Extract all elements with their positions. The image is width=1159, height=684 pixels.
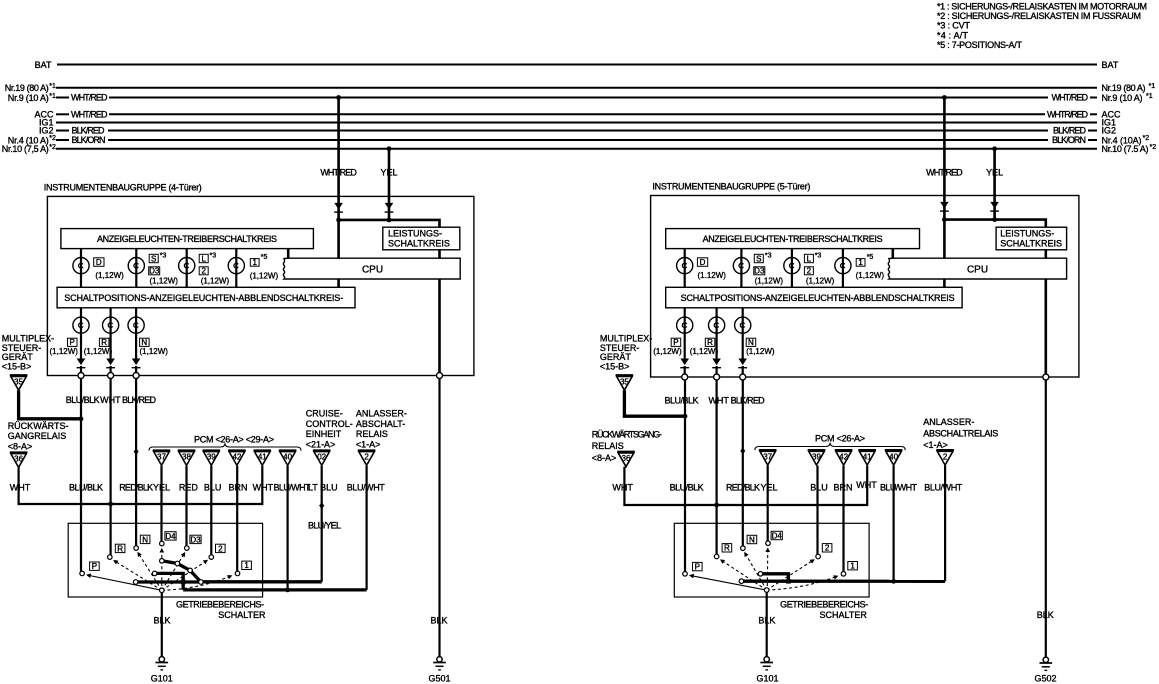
wire driver circuit to CPU xyxy=(287,249,290,259)
svg-text:R: R xyxy=(707,338,713,347)
contact D3 xyxy=(185,546,190,551)
wire LEISTUNGS to CPU xyxy=(438,250,441,258)
svg-text:EINHEIT: EINHEIT xyxy=(306,429,342,439)
wire color labels row xyxy=(10,482,386,492)
svg-text:*3: *3 xyxy=(765,253,772,260)
inner contact E' xyxy=(758,572,763,577)
lamp L/2 xyxy=(784,258,800,274)
wire LEISTUNGS to CPU xyxy=(1045,250,1048,258)
instrument cluster box (5-door) xyxy=(651,196,1079,378)
svg-text:*1: *1 xyxy=(1149,83,1156,90)
lamp 1 xyxy=(835,258,851,274)
svg-text:N: N xyxy=(749,535,755,544)
svg-text:<21-A>: <21-A> xyxy=(306,440,336,450)
svg-text:RED/BLK: RED/BLK xyxy=(726,482,760,492)
svg-text:2: 2 xyxy=(807,267,812,276)
dashed line wiper to 2 xyxy=(162,560,208,590)
wire IG2 BLK/RED bus xyxy=(56,130,69,132)
svg-text:42: 42 xyxy=(839,452,848,461)
connector 41 PCM xyxy=(858,450,876,465)
label D3 box xyxy=(149,267,160,275)
label 2 box xyxy=(199,267,208,275)
svg-text:*3 : CVT: *3 : CVT xyxy=(937,21,971,31)
contact D4 xyxy=(160,541,165,546)
splice marker LT BLU / BLU-YEL xyxy=(319,502,324,509)
wiper contact xyxy=(160,588,165,593)
node junction on Nr.10 bus xyxy=(387,146,392,151)
svg-text:ANLASSER-: ANLASSER- xyxy=(356,409,407,419)
svg-text:BLU/WHT: BLU/WHT xyxy=(924,482,963,492)
wire CPU down right side xyxy=(1045,279,1048,377)
svg-text:BLU/YEL: BLU/YEL xyxy=(308,521,341,531)
inner contact F' xyxy=(739,579,744,584)
arrow lamp P out xyxy=(680,359,689,368)
node dot YEL xyxy=(387,218,392,223)
svg-text:38: 38 xyxy=(182,453,191,462)
label N box xyxy=(746,338,756,346)
svg-text:BLK/ORN: BLK/ORN xyxy=(72,135,106,145)
svg-text:WHT/RED: WHT/RED xyxy=(71,109,108,119)
svg-text:CRUISE-: CRUISE- xyxy=(306,409,343,419)
dashed line wiper to N xyxy=(745,553,767,591)
svg-text:BAT: BAT xyxy=(35,60,52,70)
thick link E' xyxy=(761,574,789,581)
svg-text:39: 39 xyxy=(812,452,821,461)
dashed line wiper to D4 xyxy=(766,548,769,586)
wire BLK wiper to ground xyxy=(161,593,163,657)
lamp N xyxy=(128,317,144,333)
ground G501 xyxy=(433,657,446,670)
wire Nr.10 bus xyxy=(56,148,1097,150)
label D4 box switch xyxy=(771,531,782,539)
svg-text:*2: *2 xyxy=(1143,135,1150,142)
inner contact B xyxy=(175,561,180,566)
svg-text:(1,12W): (1,12W) xyxy=(806,277,835,286)
svg-text:WHTR/RED: WHTR/RED xyxy=(1047,109,1089,119)
lamp R xyxy=(103,317,119,333)
box LEISTUNGS-SCHALTKREIS xyxy=(996,227,1067,250)
label R box xyxy=(99,338,109,346)
lamp 1 wire xyxy=(842,249,844,288)
label RÜCKWÄRTSGANG-RELAIS <8-A> xyxy=(592,430,662,463)
pin P xyxy=(682,374,688,380)
pin R xyxy=(714,374,720,380)
wire BLK power circuit to ground xyxy=(1045,380,1047,658)
box GETRIEBEBEREICHS-SCHALTER xyxy=(674,523,869,597)
svg-text:D4: D4 xyxy=(772,531,783,540)
contact 2 xyxy=(209,555,214,560)
contact 2 xyxy=(816,554,821,559)
lamp R xyxy=(709,317,725,333)
dashed line wiper to 1 xyxy=(162,576,232,591)
svg-text:*5 : 7-POSITIONS-A/T: *5 : 7-POSITIONS-A/T xyxy=(937,40,1023,50)
dashed line wiper to 2 xyxy=(767,560,814,590)
lamp S/D3 xyxy=(128,258,144,274)
junction square xyxy=(181,580,186,585)
svg-text:ANLASSER-: ANLASSER- xyxy=(923,417,974,427)
label 1 box switch xyxy=(848,562,858,570)
svg-text:P: P xyxy=(695,563,700,572)
bus labels left xyxy=(2,60,54,154)
label D box xyxy=(697,258,707,267)
svg-text:<1-A>: <1-A> xyxy=(356,440,381,450)
svg-text:*2: *2 xyxy=(49,144,56,151)
connector 37 PCM xyxy=(153,450,171,465)
wire BRN PCM42 to 1 xyxy=(236,466,238,572)
svg-text:35: 35 xyxy=(14,377,23,386)
svg-text:IG2: IG2 xyxy=(1102,126,1117,136)
label N box xyxy=(140,338,150,346)
svg-text:*3: *3 xyxy=(815,253,822,260)
wiper contact xyxy=(764,588,769,593)
svg-text:R: R xyxy=(724,544,730,553)
bus labels right xyxy=(1102,60,1149,154)
svg-text:YEL: YEL xyxy=(380,168,397,178)
svg-text:BLU/BLK: BLU/BLK xyxy=(66,395,100,405)
svg-text:PCM <26-A> <29-A>: PCM <26-A> <29-A> xyxy=(194,434,274,444)
wire BLU/WHT relay2 down xyxy=(366,466,368,590)
dashed line wiper to R xyxy=(114,561,162,591)
node junction BLU/WHT on line2 xyxy=(285,588,290,593)
connector 39 PCM xyxy=(808,450,826,465)
label D box xyxy=(94,258,104,267)
svg-text:ABSCHALT-: ABSCHALT- xyxy=(356,419,405,429)
contact 1 xyxy=(235,571,240,576)
lamp S/D3 wire xyxy=(135,249,137,288)
arrow into cluster YEL xyxy=(385,203,394,212)
connector 35 multiplex xyxy=(616,375,634,390)
label 1 box switch xyxy=(242,561,252,569)
svg-text:*1: *1 xyxy=(49,93,56,100)
svg-text:CPU: CPU xyxy=(362,264,383,275)
wire WHT pin down xyxy=(109,379,111,556)
contact R xyxy=(108,555,113,560)
wire R arrow to pin xyxy=(715,366,717,377)
svg-text:CONTROL-: CONTROL- xyxy=(306,419,353,429)
svg-text:BLK/RED: BLK/RED xyxy=(731,396,766,406)
svg-text:BRN: BRN xyxy=(833,482,852,492)
svg-text:36: 36 xyxy=(14,455,23,464)
svg-text:WHT/RED: WHT/RED xyxy=(320,168,357,178)
thick line1 F to exit xyxy=(136,580,201,583)
arrow into cluster WHT/RED xyxy=(940,202,949,211)
lamp D xyxy=(73,258,89,274)
svg-text:WHT: WHT xyxy=(708,396,729,406)
svg-text:P: P xyxy=(92,562,97,571)
svg-text:YEL: YEL xyxy=(986,168,1003,178)
svg-text:Nr.9 (10 A): Nr.9 (10 A) xyxy=(8,93,49,103)
svg-text:2: 2 xyxy=(201,267,206,276)
svg-text:SCHALTKREIS: SCHALTKREIS xyxy=(1000,239,1062,249)
svg-text:BLK/RED: BLK/RED xyxy=(1053,126,1087,136)
svg-text:*1: *1 xyxy=(1146,93,1153,100)
splice marker BLK/RED to RED/BLK xyxy=(740,448,745,455)
svg-text:WHT: WHT xyxy=(10,482,31,492)
svg-text:BLU/BLK: BLU/BLK xyxy=(69,482,103,492)
inner contact C xyxy=(188,568,193,573)
label N box switch xyxy=(747,535,757,543)
LEGEND xyxy=(937,1,1147,50)
svg-text:RÜCKWÄRTS-: RÜCKWÄRTS- xyxy=(8,421,69,431)
svg-text:*3: *3 xyxy=(160,253,167,260)
node dot WHT/RED xyxy=(942,217,947,222)
label MULTIPLEX-STEUER-GERÄT <15-B> xyxy=(600,334,652,372)
wire BLU/WHT PCM40 down xyxy=(287,466,289,590)
pin power xyxy=(1043,374,1049,380)
svg-text:(1,12W): (1,12W) xyxy=(250,272,279,281)
label D4 box switch xyxy=(165,532,176,540)
svg-text:BAT: BAT xyxy=(1102,60,1119,70)
svg-text:BLU/WHT: BLU/WHT xyxy=(347,482,386,492)
svg-text:41: 41 xyxy=(258,453,267,462)
arrow into cluster WHT/RED xyxy=(334,203,343,212)
brace PCM xyxy=(755,443,905,450)
label R box switch xyxy=(115,544,125,552)
wire YEL PCM37 to D4 xyxy=(767,466,769,541)
connector 39 PCM xyxy=(203,450,221,465)
wire RED PCM38 to D3 xyxy=(185,466,187,546)
svg-text:42: 42 xyxy=(232,453,241,462)
svg-text:YEL: YEL xyxy=(760,482,777,492)
wire ACC WHT/RED bus xyxy=(56,113,69,115)
svg-text:*2: *2 xyxy=(49,135,56,142)
svg-text:G101: G101 xyxy=(151,673,173,683)
connector 2 starter cut relay xyxy=(936,450,954,465)
label 2 box switch xyxy=(822,544,832,552)
svg-text:D3: D3 xyxy=(754,267,765,276)
box SCHALTPOSITIONS dimming circuit xyxy=(57,287,355,308)
label MULTIPLEX-STEUER-GERÄT <15-B> xyxy=(2,334,54,372)
ground G101 right xyxy=(760,657,773,670)
svg-text:BLU/WHT: BLU/WHT xyxy=(880,482,918,492)
label R box xyxy=(705,338,715,346)
wire WHT pin down xyxy=(715,380,717,554)
svg-text:G101: G101 xyxy=(756,673,778,683)
arrow lamp P out xyxy=(77,359,86,368)
ground G502 xyxy=(1040,657,1053,670)
svg-text:SCHALTKREIS: SCHALTKREIS xyxy=(388,239,450,249)
label P box switch xyxy=(90,562,100,570)
svg-text:(1,12W): (1,12W) xyxy=(746,347,775,356)
lamp P xyxy=(73,317,89,333)
dashed line wiper to D4 xyxy=(161,549,163,586)
label CRUISE-CONTROL-EINHEIT <21-A> xyxy=(306,409,353,450)
box LEISTUNGS-SCHALTKREIS xyxy=(383,227,460,250)
svg-text:N: N xyxy=(142,535,148,544)
wire BLK wiper to ground xyxy=(766,592,768,657)
wire P arrow to pin xyxy=(80,366,82,376)
svg-text:(1.12W): (1.12W) xyxy=(698,271,727,280)
svg-text:Nr.10 (7.5 A): Nr.10 (7.5 A) xyxy=(1102,144,1149,154)
svg-text:02: 02 xyxy=(317,453,326,462)
svg-text:BLK: BLK xyxy=(430,615,447,625)
svg-text:BLU: BLU xyxy=(204,482,222,492)
wire BLK/RED pin down xyxy=(742,380,744,546)
connector 02 cruise control xyxy=(313,450,331,465)
node junction WHT xyxy=(714,503,719,508)
svg-text:36: 36 xyxy=(622,454,631,463)
svg-text:BLK/RED: BLK/RED xyxy=(122,395,157,405)
contact N xyxy=(741,546,746,551)
svg-text:(1,12W): (1,12W) xyxy=(690,347,719,356)
bus inline labels left xyxy=(71,93,108,146)
label 2 box xyxy=(804,267,813,275)
svg-text:37: 37 xyxy=(157,453,166,462)
svg-text:1: 1 xyxy=(244,561,249,570)
svg-text:WHT: WHT xyxy=(100,395,121,405)
wire Nr.19 bus xyxy=(56,87,1097,89)
svg-text:LEISTUNGS-: LEISTUNGS- xyxy=(388,229,442,239)
svg-text:2: 2 xyxy=(943,452,948,461)
lamp L/2 wire xyxy=(186,249,188,288)
wire YEL PCM37 to D4 xyxy=(160,466,162,542)
arrow into cluster YEL xyxy=(990,202,999,211)
svg-text:Nr.19 (80 A): Nr.19 (80 A) xyxy=(5,83,49,93)
svg-text:SCHALTER: SCHALTER xyxy=(820,610,868,620)
connector 41 PCM xyxy=(253,450,271,465)
wire CPU to dimming circuit xyxy=(337,279,340,287)
label 2 box switch xyxy=(216,544,226,552)
lamp S/D3 wire xyxy=(740,249,742,288)
pin R xyxy=(108,373,114,379)
wire WHT from relay 36 xyxy=(624,466,867,505)
splice marker BLK/RED to RED/BLK xyxy=(134,448,139,455)
dashed line wiper to R xyxy=(721,560,767,590)
svg-text:*5: *5 xyxy=(261,254,268,261)
wire driver circuit to CPU xyxy=(891,249,894,259)
wire YEL vertical drop right xyxy=(993,149,996,220)
connector 40 PCM xyxy=(279,450,297,465)
svg-text:Nr.19 (80 A): Nr.19 (80 A) xyxy=(1102,83,1146,93)
svg-text:WHT: WHT xyxy=(253,482,274,492)
svg-text:WHT/RED: WHT/RED xyxy=(926,168,963,178)
svg-text:<15-B>: <15-B> xyxy=(600,361,630,371)
wire BAT bus xyxy=(57,64,1097,66)
contact N xyxy=(134,546,139,551)
svg-text:CPU: CPU xyxy=(967,264,988,275)
ground G101 xyxy=(156,657,169,670)
thick line1 exit to BLU/YEL xyxy=(201,580,322,583)
thick link E to vertical xyxy=(155,573,184,590)
contact P xyxy=(683,572,688,577)
svg-text:(1,12W): (1,12W) xyxy=(856,271,885,280)
svg-text:<8-A>: <8-A> xyxy=(592,453,617,463)
connector 38 PCM xyxy=(178,450,196,465)
svg-text:WHT/RED: WHT/RED xyxy=(71,93,108,103)
box ANZEIGELEUCHTEN-TREIBERSCHALTKREIS xyxy=(61,229,314,249)
arrow lamp R out xyxy=(106,359,115,368)
svg-text:(1,12W): (1,12W) xyxy=(84,347,113,356)
svg-text:D3: D3 xyxy=(149,267,160,276)
wire horizontal feed to power circuit xyxy=(339,220,440,227)
svg-text:BLU/BLK: BLU/BLK xyxy=(670,482,704,492)
svg-text:PCM <26-A>: PCM <26-A> xyxy=(815,433,865,443)
svg-text:(1,12W): (1,12W) xyxy=(653,347,682,356)
node junction on Nr.10 bus xyxy=(992,146,997,151)
node junction on Nr.9 bus xyxy=(336,95,341,100)
svg-text:RELAIS: RELAIS xyxy=(592,441,624,451)
contact D4 xyxy=(766,541,771,546)
box ANZEIGELEUCHTEN-TREIBERSCHALTKREIS xyxy=(666,229,920,249)
wire Nr.4 BLK/ORN bus xyxy=(56,139,69,141)
inner contact A xyxy=(160,559,165,564)
node junction on Nr.9 bus xyxy=(942,95,947,100)
svg-text:<1-A>: <1-A> xyxy=(923,440,948,450)
svg-text:S: S xyxy=(151,254,156,263)
arrow lamp R out xyxy=(712,359,721,368)
switch wiper line to P (solid) xyxy=(87,575,162,590)
thick link A-B-C-D xyxy=(162,561,201,582)
dashed line wiper to 1 xyxy=(767,576,838,590)
label D3 box xyxy=(754,267,765,275)
wire WHT from relay 36 xyxy=(19,466,263,504)
connector 36 reverse relay xyxy=(10,452,28,467)
arrow lamp N out xyxy=(132,359,141,368)
svg-text:SCHALTER: SCHALTER xyxy=(218,610,266,620)
pin N xyxy=(740,374,746,380)
node junction WHT xyxy=(108,502,113,507)
svg-text:WHT: WHT xyxy=(612,482,633,492)
svg-text:WHT/RED: WHT/RED xyxy=(1052,93,1089,103)
svg-text:P: P xyxy=(673,338,678,347)
svg-text:1: 1 xyxy=(858,258,863,267)
dashed line wiper to D3 xyxy=(162,553,185,591)
svg-text:(1,12W): (1,12W) xyxy=(755,277,784,286)
svg-text:BLK: BLK xyxy=(153,615,170,625)
wire CPU to dimming circuit xyxy=(943,279,946,287)
svg-text:INSTRUMENTENBAUGRUPPE (4-Türer: INSTRUMENTENBAUGRUPPE (4-Türer) xyxy=(44,183,202,193)
wire WHT/RED vertical drop left xyxy=(337,98,340,259)
connector 42 PCM xyxy=(835,450,853,465)
svg-text:INSTRUMENTENBAUGRUPPE (5-Türer: INSTRUMENTENBAUGRUPPE (5-Türer) xyxy=(652,182,810,192)
thick line2 to relay wire xyxy=(183,588,366,591)
label S box *3 xyxy=(754,254,763,262)
wire P arrow to pin xyxy=(684,366,686,377)
wire IG1 bus xyxy=(56,122,1097,124)
svg-text:*5: *5 xyxy=(867,254,874,261)
label L box *3 xyxy=(804,254,813,262)
lamp R wire xyxy=(715,308,717,361)
node junction BLU/BLK xyxy=(79,416,84,421)
box GETRIEBEBEREICHS-SCHALTER xyxy=(68,523,262,597)
svg-text:P: P xyxy=(70,338,75,347)
label P box xyxy=(671,338,681,346)
lamp S/D3 xyxy=(733,258,749,274)
svg-text:(1,12W): (1,12W) xyxy=(150,277,179,286)
connector 2 starter cut relay xyxy=(358,450,376,465)
node dot WHT/RED xyxy=(336,218,341,223)
svg-text:L: L xyxy=(807,254,812,263)
svg-text:SCHALTPOSITIONS-ANZEIGELEUCHTE: SCHALTPOSITIONS-ANZEIGELEUCHTEN-ABBLENDS… xyxy=(681,293,955,303)
bus inline labels right xyxy=(1047,93,1089,146)
svg-text:40: 40 xyxy=(889,452,898,461)
wire CPU down right side xyxy=(438,279,441,376)
lamp D wire xyxy=(684,249,686,288)
svg-text:RELAIS: RELAIS xyxy=(356,429,388,439)
svg-text:RÜCKWÄRTSGANG-: RÜCKWÄRTSGANG- xyxy=(592,430,662,440)
label 1 box *5 xyxy=(250,259,259,267)
instrument cluster box (4-door) xyxy=(47,196,474,375)
connector 42 PCM xyxy=(228,450,246,465)
thick line F' to relay wire xyxy=(741,580,945,583)
label R box switch xyxy=(722,544,732,552)
lamp P xyxy=(677,317,693,333)
connector 37 PCM xyxy=(759,450,777,465)
wire N arrow to pin xyxy=(135,366,137,376)
svg-text:2: 2 xyxy=(218,544,223,553)
wire N arrow to pin xyxy=(742,366,744,377)
svg-text:<15-B>: <15-B> xyxy=(2,361,32,371)
